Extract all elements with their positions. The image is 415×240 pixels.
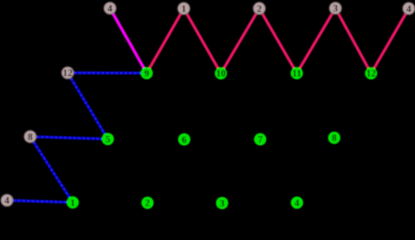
svg-text:1: 1 [181,4,186,15]
wire: blue edge ghost4(bottom-left)-1 [7,200,73,202]
wire: magenta edge ghost4(top-left)-node9 [110,8,147,73]
svg-text:4: 4 [295,198,300,209]
node vertex 2 [141,197,153,209]
node vertex 7 [254,133,266,145]
node ghost vertex 8 [24,131,36,143]
wire: blue edge ghost8-1 [30,137,72,203]
svg-text:8: 8 [332,133,337,144]
svg-text:4: 4 [406,4,411,15]
wire: crimson edge 3-11 [297,8,336,73]
node vertex 11 [291,67,303,80]
node ghost vertex 4 (bottom-left) [1,194,13,206]
node ghost vertex 3 [329,2,341,14]
node vertex 8 [328,132,340,144]
node vertex 6 [178,133,190,146]
node vertex 5 [102,133,114,146]
wire: crimson edge 4(top-right)-12 [371,9,409,74]
svg-text:2: 2 [257,4,262,15]
svg-text:4: 4 [5,196,10,207]
node ghost vertex 2 [253,2,265,14]
node ghost vertex 4 (top-right) [403,2,415,14]
wire: crimson edge 2-11 [259,8,297,73]
node vertex 10 [215,67,227,80]
svg-text:5: 5 [105,134,110,145]
node vertex 12 [365,67,377,80]
wire: crimson edge 2-10 [221,8,259,73]
svg-text:7: 7 [258,135,263,146]
svg-text:12: 12 [366,69,376,80]
svg-text:3: 3 [220,198,225,209]
node vertex 1 [67,196,79,209]
svg-text:10: 10 [216,69,226,80]
node vertex 9 [141,67,153,80]
wire: crimson edge 1-10 [184,9,221,74]
wire: blue edge ghost8-5 [30,137,108,139]
wire: crimson edge 1-9 [147,9,184,74]
node ghost vertex 1 [178,2,190,14]
node vertex 3 [216,197,228,210]
svg-text:3: 3 [333,4,338,15]
svg-text:8: 8 [28,132,33,143]
node vertex 4 [291,196,303,208]
svg-text:11: 11 [292,69,301,80]
wire: blue edge ghost12-5 [68,73,108,139]
svg-text:9: 9 [144,68,149,79]
svg-text:6: 6 [182,135,187,146]
node ghost vertex 12 [62,67,74,79]
svg-text:2: 2 [145,198,150,209]
svg-text:4: 4 [108,4,113,15]
svg-text:12: 12 [63,68,73,79]
node ghost vertex 4 (top-left) [104,2,116,14]
wire: blue edge ghost12-9 [68,71,147,74]
svg-text:1: 1 [70,198,75,209]
wire: crimson edge 3-12 [335,8,371,73]
